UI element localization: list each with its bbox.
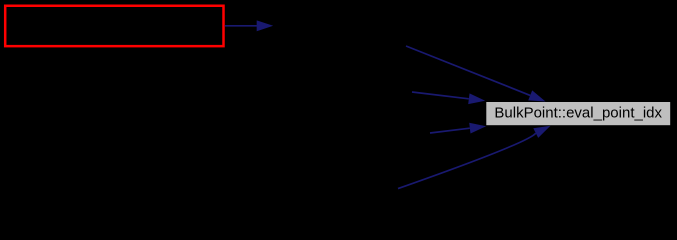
wire: edge B from hidden caller to BulkPoint::eval_point_idx (top) — [406, 46, 530, 95]
wire: edge A from red node to hidden node — [225, 25, 258, 27]
arrowhead: edge C — [468, 93, 485, 104]
arrowhead: edge B — [528, 90, 545, 101]
node BulkPoint::eval_point_idx (current node, grey fill) — [486, 102, 670, 125]
arrowhead: edge E — [533, 126, 550, 138]
node: red-bordered caller box (truncated node) — [5, 6, 223, 46]
wire: edge D from hidden caller to left edge (lower) — [430, 128, 470, 133]
arrowhead: edge A — [257, 20, 274, 31]
svg-text:BulkPoint::eval_point_idx: BulkPoint::eval_point_idx — [494, 104, 662, 121]
arrowhead: edge D — [469, 123, 486, 134]
wire: edge E from hidden caller to bottom edge (curved) — [398, 133, 536, 189]
wire: edge C from hidden caller to left edge (upper) — [412, 92, 469, 99]
